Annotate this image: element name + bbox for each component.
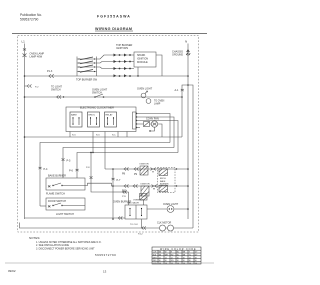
svg-text:12: 12 (171, 257, 173, 259)
bus wire y76 (25, 75, 189, 77)
svg-text:14: 14 (189, 257, 191, 259)
svg-text:P-5: P-5 (67, 160, 72, 163)
chassis ground symbol top right (186, 50, 190, 56)
svg-text:CONV FAN: CONV FAN (146, 117, 159, 120)
connector P2 label (51, 86, 63, 92)
svg-text:TO CLK: TO CLK (130, 224, 138, 226)
svg-text:P-6: P-6 (69, 170, 74, 173)
svg-text:13: 13 (103, 270, 107, 274)
svg-text:P1-3: P1-3 (47, 70, 53, 73)
svg-text:14: 14 (165, 257, 167, 259)
wire L1 vertical (24, 44, 26, 220)
svg-text:90: 90 (195, 260, 197, 262)
burner dashed box (158, 168, 176, 193)
bake igniter box (141, 186, 149, 196)
svg-text:14: 14 (159, 257, 161, 259)
clock wire labels (130, 224, 143, 236)
junction dot row2 end (187, 185, 189, 187)
model number label (97, 15, 131, 19)
oven light switch label (92, 89, 108, 95)
svg-text:SWITCH: SWITCH (92, 92, 102, 95)
wire clock drop 1 (69, 132, 71, 138)
svg-text:OVEN LIGHT: OVEN LIGHT (137, 88, 153, 91)
svg-text:CLK MOTOR: CLK MOTOR (157, 222, 171, 225)
oven light lamp 1 (141, 91, 147, 98)
svg-text:90: 90 (159, 260, 161, 262)
svg-text:RELAY: RELAY (106, 114, 114, 117)
svg-text:P-7: P-7 (117, 179, 122, 182)
wire N vertical (187, 44, 189, 220)
convection fan motor (151, 121, 157, 127)
svg-text:16: 16 (183, 257, 185, 259)
wire clock drop 5 (126, 132, 128, 138)
fan bottom stub (150, 127, 155, 131)
row2 connector b (133, 185, 138, 188)
clock switch sub labels (72, 135, 116, 137)
svg-text:WIRING DIAGRAM: WIRING DIAGRAM (95, 27, 132, 31)
svg-text:LIGHT SWITCH: LIGHT SWITCH (56, 213, 74, 216)
svg-text:105: 105 (171, 260, 174, 262)
clock switch block 3 (105, 112, 117, 127)
surface burner row 3 (97, 67, 135, 70)
svg-text:3. DISCONNECT POWER BEFORE SE: 3. DISCONNECT POWER BEFORE SERVICING UNI… (36, 248, 95, 251)
svg-text:GROUND: GROUND (172, 54, 183, 57)
ground wire right (188, 85, 193, 228)
wire clock pin3 (137, 121, 179, 153)
svg-text:L1: L1 (22, 40, 26, 44)
svg-text:LAMP: LAMP (154, 103, 161, 106)
svg-text:N: N (185, 40, 187, 44)
svg-text:90: 90 (177, 260, 179, 262)
wire clock pin1 (137, 114, 171, 143)
svg-text:TOP BURNER SW: TOP BURNER SW (76, 79, 98, 82)
svg-text:BAKE: BAKE (160, 180, 166, 183)
wire clock drop 4 (117, 132, 119, 138)
junction dot N branch (187, 84, 189, 86)
bus wire y142.5 (40, 143, 170, 207)
connector on clock wire (142, 227, 146, 230)
wire module out 1 (156, 55, 162, 76)
title WIRING DIAGRAM (95, 27, 133, 31)
oven light lamp 2 (146, 99, 151, 104)
wire fan to bus (137, 124, 163, 137)
ground label (172, 51, 183, 57)
svg-text:BAKE: BAKE (71, 114, 77, 117)
svg-text:P-12: P-12 (138, 234, 143, 236)
connector on L1 wire lower (25, 85, 32, 88)
broil igniter box (140, 166, 148, 175)
surface burner row 1 (97, 54, 135, 59)
clock switch block 2 (88, 112, 100, 127)
bus wire y147.5 (63, 148, 174, 179)
surface burner row 4 arrows on bus (114, 74, 131, 77)
connector on wire x63 (62, 159, 65, 161)
svg-text:BL: BL (177, 255, 179, 257)
bus wire y137 (25, 136, 183, 138)
connector P2 on bus97 (57, 96, 62, 99)
svg-text:BAKE BURNER: BAKE BURNER (48, 175, 66, 178)
junction dot x113 end (112, 218, 114, 220)
svg-text:IGNITOR: IGNITOR (141, 184, 150, 186)
junction dot N/bus76 (187, 75, 189, 77)
junction dot light/N (187, 208, 189, 210)
row2 connector a (124, 185, 129, 188)
header rule (12, 33, 207, 35)
junction dot x113 row1 (112, 168, 114, 170)
svg-text:TO OVEN: TO OVEN (154, 101, 165, 103)
svg-text:LAMP 40W: LAMP 40W (30, 56, 43, 59)
wire x91 drop (91, 153, 113, 193)
oven lamp symbol (23, 54, 27, 58)
connector on wire x40 (39, 167, 42, 169)
svg-text:MODULE: MODULE (137, 61, 148, 64)
convection fan resistor box (144, 122, 150, 127)
wire sensor to valve (143, 200, 145, 205)
junction dot L1/bus137 (24, 136, 26, 138)
wire clock motor (166, 227, 194, 229)
junction dot row1 at box exit (176, 168, 177, 169)
connector on valve feed (123, 191, 127, 194)
table cell text (153, 252, 198, 265)
svg-text:5995372790: 5995372790 (95, 253, 116, 257)
surface burner rows label (116, 44, 132, 50)
bake electrode (159, 185, 168, 192)
wire clock drop 3 (104, 132, 106, 170)
footer rule (5, 262, 214, 264)
row2 spark gap (152, 185, 157, 188)
connector P1 on bus76 (49, 74, 54, 78)
publication number label (20, 13, 42, 22)
svg-text:NOTES:: NOTES: (29, 236, 40, 240)
bus wire y152 (77, 153, 178, 179)
svg-text:SWITCH: SWITCH (51, 89, 61, 92)
surface switch bank (77, 57, 97, 77)
svg-text:90: 90 (189, 260, 191, 262)
bus wire y97 (25, 96, 183, 98)
clock connector strip (133, 112, 138, 129)
surface burner row 2 (97, 60, 135, 63)
svg-text:IGNITOR: IGNITOR (140, 164, 149, 166)
svg-text:N.O.: N.O. (96, 135, 101, 137)
svg-text:N.C.: N.C. (112, 135, 116, 137)
junction dot x113 row2 (112, 185, 114, 187)
oven light switch on bus97 (95, 94, 103, 97)
connector on wire x77 (76, 169, 79, 171)
broil electrode (159, 169, 168, 176)
spark module U1 (134, 52, 156, 67)
svg-text:W: W (165, 252, 167, 254)
svg-text:DOOR SWITCH: DOOR SWITCH (48, 200, 66, 203)
oven light wire y209 (147, 208, 188, 210)
row1 connector b (134, 168, 139, 171)
junction dot L1/bus76 (24, 75, 26, 77)
door switch box (46, 198, 85, 210)
bus wire y219 (25, 217, 126, 219)
wire N branch to bus97 (182, 85, 188, 137)
svg-text:BROIL: BROIL (160, 178, 167, 180)
svg-text:09/02: 09/02 (8, 269, 16, 273)
lamp 2 label (154, 101, 165, 106)
connector on x113 (112, 178, 115, 180)
svg-text:P-4: P-4 (44, 168, 49, 171)
wire igniter column x113 (112, 169, 114, 218)
svg-text:Publication No.: Publication No. (20, 13, 42, 17)
bake burner box (46, 178, 85, 190)
svg-text:N.O.: N.O. (72, 135, 77, 137)
svg-text:90: 90 (183, 260, 185, 262)
svg-text:OVEN LIGHT: OVEN LIGHT (163, 203, 179, 206)
junction dot bus97 end (181, 96, 183, 98)
connector on L1 wire (23, 49, 26, 51)
connector on x91 (90, 177, 93, 179)
wire x40 into door switch box (40, 205, 46, 207)
svg-text:18: 18 (195, 257, 197, 259)
junction dot L1/bus97 (24, 96, 26, 98)
connector on bus at valve (118, 217, 122, 220)
wire y192 to valve (113, 191, 129, 193)
svg-text:5995372790: 5995372790 (20, 18, 39, 22)
svg-text:FGF355ASWA: FGF355ASWA (97, 15, 131, 19)
row1 spark gap (151, 168, 156, 171)
junction dot row1 end (187, 168, 189, 170)
wire clock pin2 (137, 117, 175, 148)
wire color code table (152, 247, 201, 264)
oven light bulb (167, 206, 174, 213)
cabinet dashed border (18, 36, 199, 233)
svg-text:16: 16 (177, 257, 179, 259)
svg-text:ELECTRONIC CLOCK/TIMER: ELECTRONIC CLOCK/TIMER (80, 106, 114, 109)
control panel box (66, 107, 136, 132)
oven sensor box (140, 194, 148, 201)
wire valve bottom pin (141, 219, 143, 228)
wire module bottom pin (137, 67, 139, 76)
row1 connector a (124, 168, 129, 171)
svg-text:90: 90 (165, 260, 167, 262)
gas valve block (125, 205, 147, 219)
svg-text:YL: YL (189, 255, 191, 257)
oven lamp label (30, 53, 45, 59)
wire bake box to row2 (85, 183, 113, 186)
svg-text:FLAME SWITCH: FLAME SWITCH (46, 193, 65, 196)
svg-text:BL: BL (177, 252, 179, 254)
igniter row 2 wire (113, 185, 188, 187)
clock switch block 1 (70, 112, 82, 127)
junction dot row2 at box exit (176, 185, 177, 186)
svg-text:BROIL: BROIL (89, 115, 96, 117)
burner box text (160, 178, 169, 186)
svg-text:GAS VALVE: GAS VALVE (127, 202, 139, 205)
wire clock drop 2 (92, 132, 94, 153)
wire clock pin4 (137, 127, 141, 129)
bus wire y228 (20, 223, 160, 229)
igniter row 1 wire (105, 168, 188, 170)
svg-text:IGNITORS: IGNITORS (116, 47, 128, 50)
clock motor coils (160, 225, 174, 231)
svg-text:A-1: A-1 (175, 89, 180, 92)
wire y192 corner down to valve (128, 192, 130, 205)
connector A1 on branch (181, 89, 184, 91)
svg-text:WIRE COLOR CODE: WIRE COLOR CODE (160, 248, 196, 251)
